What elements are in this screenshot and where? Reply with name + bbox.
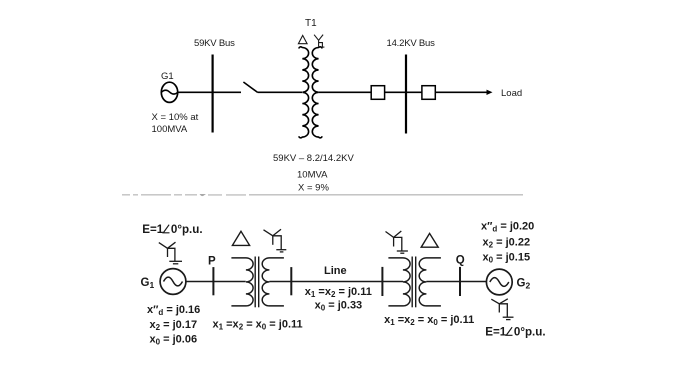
svg-text:X = 10% at: X = 10% at — [152, 112, 199, 123]
svg-text:100MVA: 100MVA — [152, 124, 188, 135]
svg-text:G1: G1 — [161, 71, 174, 82]
switch blade — [243, 82, 257, 93]
wire transformer A to line tick — [269, 281, 382, 283]
line left tick — [290, 267, 292, 295]
load arrowhead — [487, 90, 493, 95]
transformer B core — [411, 257, 413, 308]
label E=1angle0 p.u. (right) — [485, 326, 545, 339]
line right tick — [381, 267, 383, 296]
svg-text:T1: T1 — [305, 18, 317, 29]
wire box1 to box2 — [385, 91, 422, 93]
wire tick to transformer B — [382, 281, 403, 283]
svg-text:X = 9%: X = 9% — [298, 183, 329, 194]
transformer T1 left winding — [299, 47, 309, 138]
breaker box 2 — [422, 86, 435, 100]
generator G2 — [486, 269, 512, 295]
wire G1 to transformer A — [186, 281, 246, 283]
grounded wye symbol (transformer B) — [386, 231, 408, 253]
wire box2 to load arrow — [435, 91, 488, 93]
svg-text:0°p.u.: 0°p.u. — [514, 326, 546, 339]
delta symbol (transformer B) — [421, 233, 438, 247]
reactance labels G1 — [147, 304, 200, 347]
svg-text:E=1: E=1 — [485, 326, 507, 339]
svg-text:x1 =x2 = j0.11: x1 =x2 = j0.11 — [305, 286, 372, 299]
transformer A left winding — [231, 258, 253, 306]
grounded wye symbol below G2 — [491, 299, 513, 320]
faded scan text artifacts — [122, 194, 246, 196]
delta symbol (T1 primary) — [298, 35, 307, 43]
grounded wye symbol above G1 — [159, 242, 182, 264]
faded horizontal rule — [249, 194, 523, 195]
transformer A right winding — [262, 258, 284, 306]
node Q bus tick — [459, 267, 461, 296]
angle symbol (right) — [506, 327, 512, 335]
breaker box 1 — [371, 86, 384, 100]
svg-text:14.2KV Bus: 14.2KV Bus — [387, 38, 436, 49]
generator G1 (top) — [161, 82, 177, 102]
svg-text:x″d = j0.16: x″d = j0.16 — [147, 304, 200, 317]
svg-text:10MVA: 10MVA — [297, 170, 328, 181]
svg-text:Load: Load — [501, 88, 522, 99]
wire T1 to breaker box 1 — [319, 91, 372, 93]
svg-text:Q: Q — [456, 254, 465, 266]
wire transformer B to G2 — [426, 281, 486, 283]
transformer B right winding — [419, 258, 441, 306]
svg-text:E=1: E=1 — [142, 223, 164, 236]
reactance labels G2 — [481, 221, 534, 265]
transformer A core — [254, 257, 256, 308]
wire G1 to switch — [178, 91, 241, 93]
generator G1 (bottom) — [160, 269, 186, 295]
delta symbol (transformer A) — [232, 231, 249, 245]
bus 59KV — [212, 55, 214, 133]
bus 14.2KV — [405, 55, 407, 134]
svg-text:x1 =x2 = x0 = j0.11: x1 =x2 = x0 = j0.11 — [384, 314, 474, 327]
wire switch to T1 — [258, 91, 302, 93]
svg-text:59KV Bus: 59KV Bus — [194, 38, 235, 49]
svg-text:59KV – 8.2/14.2KV: 59KV – 8.2/14.2KV — [273, 153, 354, 164]
transformer T1 right winding — [312, 47, 322, 138]
angle symbol (left) — [163, 225, 169, 233]
label E=1angle0 p.u. (left) — [142, 223, 202, 236]
svg-text:P: P — [208, 256, 216, 268]
grounded wye symbol (transformer A) — [264, 229, 287, 252]
grounded wye symbol (T1 secondary) — [314, 35, 324, 48]
svg-text:x1 =x2 = x0 = j0.11: x1 =x2 = x0 = j0.11 — [213, 319, 303, 332]
svg-text:0°p.u.: 0°p.u. — [171, 223, 203, 236]
transformer B left winding — [388, 258, 410, 306]
svg-text:Line: Line — [324, 265, 347, 277]
svg-text:x″d = j0.20: x″d = j0.20 — [481, 221, 534, 234]
node P bus tick — [212, 267, 214, 295]
